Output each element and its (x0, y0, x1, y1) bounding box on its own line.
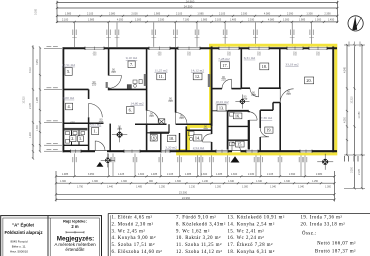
svg-text:2.390: 2.390 (287, 11, 294, 15)
svg-text:3.950: 3.950 (37, 58, 39, 64)
room box 17. (221, 62, 230, 69)
svg-text:1.210: 1.210 (189, 185, 196, 188)
fixtures (66, 74, 235, 146)
svg-text:2.030: 2.030 (158, 17, 165, 21)
room box 1. (92, 128, 99, 135)
svg-text:4.080: 4.080 (264, 11, 271, 15)
svg-text:2.105: 2.105 (167, 172, 174, 176)
svg-text:"A" Épület: "A" Épület (12, 222, 35, 227)
svg-text:1.450: 1.450 (328, 17, 335, 21)
svg-text:24.960: 24.960 (182, 196, 191, 200)
star symbol room 6 (112, 127, 127, 142)
svg-text:18. Konyha 6,31 m²: 18. Konyha 6,31 m² (228, 249, 275, 255)
svg-text:16. Wc 2,24 m²: 16. Wc 2,24 m² (228, 235, 265, 241)
svg-text:10.210: 10.210 (352, 96, 354, 104)
svg-text:20.: 20. (306, 78, 311, 83)
svg-text:210: 210 (99, 120, 104, 124)
svg-text:24.960: 24.960 (186, 0, 195, 3)
svg-text:1.485: 1.485 (151, 172, 158, 176)
svg-text:17.: 17. (222, 63, 227, 68)
svg-text:2 m: 2 m (71, 224, 78, 229)
list area left border (107, 214, 109, 256)
svg-text:1.340: 1.340 (256, 180, 263, 183)
svg-text:210: 210 (203, 127, 208, 131)
svg-text:1.300: 1.300 (92, 180, 99, 183)
windows (bottom wall) (71, 150, 313, 153)
svg-text:1.300: 1.300 (138, 172, 145, 176)
room box 18. (260, 63, 269, 70)
svg-text:4.080: 4.080 (268, 17, 275, 21)
svg-text:1.790: 1.790 (77, 185, 84, 188)
svg-text:4.350: 4.350 (117, 17, 124, 21)
room list (112, 215, 357, 255)
svg-text:2.105: 2.105 (215, 17, 222, 21)
svg-text:900: 900 (149, 180, 154, 183)
svg-text:2.030: 2.030 (241, 11, 248, 15)
svg-text:6.: 6. (129, 108, 132, 113)
svg-text:210: 210 (92, 83, 97, 87)
svg-text:7. Fürdő 9,10 m²: 7. Fürdő 9,10 m² (176, 215, 216, 221)
entrance triangle 1 (96, 162, 103, 167)
room box 5. (65, 68, 72, 76)
svg-text:11. Szoba 11,25 m²: 11. Szoba 11,25 m² (176, 242, 222, 248)
svg-text:1.300: 1.300 (242, 185, 249, 188)
north arrow (348, 16, 363, 31)
room box 16. (233, 113, 242, 119)
svg-text:2.030: 2.030 (248, 17, 255, 21)
svg-text:1.250: 1.250 (159, 185, 166, 188)
svg-text:19.: 19. (266, 128, 271, 133)
svg-text:12.: 12. (195, 74, 200, 79)
svg-text:1.300: 1.300 (306, 11, 313, 15)
svg-text:1.300: 1.300 (231, 172, 238, 176)
svg-text:15. Wc 2,41 m²: 15. Wc 2,41 m² (228, 228, 265, 234)
svg-text:8. Közlekedő 3,43m²: 8. Közlekedő 3,43m² (176, 221, 226, 227)
svg-text:2. Mosdó 2,30 m²: 2. Mosdó 2,30 m² (112, 221, 154, 227)
svg-text:10.210: 10.210 (24, 96, 26, 104)
svg-text:3.300: 3.300 (352, 166, 354, 172)
title block cell 1 text (4, 222, 43, 253)
svg-text:1.900: 1.900 (30, 131, 32, 137)
star symbol room 13 (235, 94, 249, 108)
svg-text:értendők!: értendők! (65, 247, 84, 252)
shaft box in hall (158, 119, 165, 125)
svg-text:23.300: 23.300 (179, 190, 188, 194)
svg-text:1.985: 1.985 (88, 17, 95, 21)
svg-text:Össz.:: Össz.: (302, 231, 317, 237)
svg-text:1.985: 1.985 (62, 172, 69, 176)
svg-text:210: 210 (221, 78, 226, 82)
svg-text:14. Konyha 2,54 m²: 14. Konyha 2,54 m² (228, 221, 275, 227)
svg-text:1. Előtér 4,65 m²: 1. Előtér 4,65 m² (112, 215, 153, 221)
svg-text:0.300: 0.300 (35, 8, 38, 15)
svg-text:210: 210 (286, 92, 291, 96)
svg-text:2.030: 2.030 (248, 172, 255, 176)
svg-text:1.300: 1.300 (325, 185, 332, 188)
svg-text:1.985: 1.985 (65, 11, 72, 15)
svg-text:1.300: 1.300 (121, 180, 128, 183)
room number boxes (65, 61, 314, 147)
svg-text:17. Étkező 7,28 m²: 17. Étkező 7,28 m² (228, 242, 274, 248)
svg-text:9. Wc 1,62 m²: 9. Wc 1,62 m² (176, 228, 210, 234)
room box 15. (236, 141, 245, 147)
svg-text:2.105: 2.105 (267, 172, 274, 176)
svg-text:1.440: 1.440 (107, 185, 114, 188)
svg-text:2.: 2. (71, 136, 74, 141)
svg-text:2.105: 2.105 (359, 168, 361, 174)
svg-text:1.425: 1.425 (118, 172, 125, 176)
svg-text:1.300: 1.300 (60, 180, 67, 183)
svg-text:2.980: 2.980 (316, 172, 323, 176)
svg-text:19. Iroda 7,36 m²: 19. Iroda 7,36 m² (301, 215, 343, 221)
yellow highlight outline of section B (178, 45, 336, 154)
room box 6. (127, 107, 135, 114)
entrance triangle 2 (231, 156, 240, 162)
left dimension lines (24, 45, 63, 159)
svg-text:210: 210 (111, 70, 116, 74)
title block table (1, 216, 102, 256)
small marks right of bottom-right star (344, 156, 359, 162)
svg-text:11.050: 11.050 (359, 111, 361, 119)
svg-text:10. Raktár 3,20 m²: 10. Raktár 3,20 m² (176, 235, 221, 241)
svg-text:1.340: 1.340 (228, 180, 235, 183)
svg-text:24.300: 24.300 (184, 5, 193, 9)
room box 11. (157, 73, 166, 80)
svg-text:4.245: 4.245 (344, 66, 346, 72)
star symbol at entrance (101, 153, 115, 167)
svg-text:1.985: 1.985 (185, 172, 192, 176)
svg-text:2.105: 2.105 (30, 102, 32, 108)
svg-text:2.105: 2.105 (87, 11, 94, 15)
svg-text:1.250: 1.250 (312, 180, 319, 183)
svg-text:8045 Fonyód: 8045 Fonyód (11, 240, 28, 244)
svg-text:1.660: 1.660 (175, 180, 182, 183)
doors (arcs) (89, 76, 294, 152)
svg-text:2.030: 2.030 (131, 11, 138, 15)
room area labels (62, 56, 299, 151)
svg-text:1.300: 1.300 (37, 124, 39, 130)
svg-text:4.350: 4.350 (344, 116, 346, 122)
svg-text:11.: 11. (159, 74, 164, 79)
svg-text:14.: 14. (195, 135, 200, 140)
interior walls right section (212, 49, 281, 151)
svg-text:5.: 5. (67, 69, 70, 74)
svg-text:Rajz léptéke:: Rajz léptéke: (63, 218, 87, 223)
windows (top wall) (85, 47, 327, 57)
room box 20. (305, 77, 314, 84)
wall axis extension lines (top) (72, 23, 314, 48)
svg-text:12. Szoba 14,12 m²: 12. Szoba 14,12 m² (176, 249, 222, 255)
svg-text:1.300: 1.300 (201, 172, 208, 176)
svg-text:2.390: 2.390 (324, 11, 331, 15)
svg-text:210: 210 (168, 99, 173, 103)
right dimension lines (344, 42, 365, 190)
svg-text:15.: 15. (237, 142, 242, 147)
svg-text:1.240: 1.240 (202, 180, 209, 183)
svg-text:2.105: 2.105 (176, 11, 183, 15)
svg-text:1.340: 1.340 (284, 180, 291, 183)
top dimension lines (56, 0, 339, 23)
svg-text:16.: 16. (235, 113, 240, 118)
svg-text:Béke u. 11.: Béke u. 11. (12, 244, 27, 248)
room box 8 (circled) (150, 134, 157, 141)
svg-text:7.: 7. (130, 62, 133, 67)
svg-text:210: 210 (179, 116, 184, 120)
svg-text:10.: 10. (169, 136, 174, 141)
svg-text:Nettó 166,07 m²: Nettó 166,07 m² (317, 240, 356, 246)
room box 14. (193, 135, 202, 141)
svg-text:1.985: 1.985 (154, 11, 161, 15)
svg-text:1.985: 1.985 (37, 96, 39, 102)
svg-text:Földszinti alaprajz: Földszinti alaprajz (4, 230, 43, 235)
svg-text:1.985: 1.985 (299, 17, 306, 21)
interior walls left section (63, 47, 212, 152)
svg-text:2.080: 2.080 (109, 11, 116, 15)
svg-text:3.: 3. (79, 137, 82, 141)
svg-text:1.300: 1.300 (135, 17, 142, 21)
svg-text:1.985: 1.985 (201, 17, 208, 21)
svg-text:5. Szoba 17,51 m²: 5. Szoba 17,51 m² (112, 242, 155, 248)
title block cell 2 text (54, 218, 96, 252)
door size labels (92, 68, 291, 132)
svg-text:2.100: 2.100 (62, 17, 69, 21)
svg-text:13.: 13. (219, 105, 224, 110)
room box 10. (167, 135, 176, 141)
svg-text:13. Közlekedő 10,91 m²: 13. Közlekedő 10,91 m² (228, 215, 285, 221)
bottom dimension lines (55, 154, 336, 202)
svg-text:4.: 4. (67, 104, 70, 109)
star symbol bottom right (317, 154, 333, 170)
room box 12. (193, 73, 202, 80)
svg-text:1.485: 1.485 (230, 17, 237, 21)
svg-text:20. Iroda 33,18 m²: 20. Iroda 33,18 m² (301, 221, 346, 227)
room box 13. (217, 105, 226, 111)
room box 19. (265, 127, 273, 133)
svg-text:4. Konyha 9,00 m²: 4. Konyha 9,00 m² (112, 235, 157, 241)
svg-text:1.340: 1.340 (270, 185, 277, 188)
svg-text:1.300: 1.300 (283, 17, 290, 21)
svg-text:210: 210 (251, 93, 256, 97)
svg-text:1.485: 1.485 (136, 185, 143, 188)
svg-text:1.485: 1.485 (216, 172, 223, 176)
svg-text:2.390: 2.390 (289, 172, 296, 176)
svg-text:1.985: 1.985 (197, 11, 204, 15)
room box 7. (128, 61, 135, 68)
svg-text:6.110: 6.110 (30, 66, 32, 72)
svg-text:Bruttó 187,37 m²: Bruttó 187,37 m² (315, 248, 356, 254)
svg-text:7.180: 7.180 (183, 17, 190, 21)
svg-text:1.300: 1.300 (315, 17, 322, 21)
svg-text:Hrsz. 5000/10: Hrsz. 5000/10 (10, 250, 28, 254)
room box 2. (70, 136, 76, 142)
svg-text:18.: 18. (262, 64, 267, 69)
svg-text:210: 210 (149, 114, 154, 118)
svg-text:2.105: 2.105 (219, 11, 226, 15)
room box 4. (66, 103, 73, 110)
svg-text:3. Wc 2,45 m²: 3. Wc 2,45 m² (112, 228, 146, 234)
room box 3 (78, 136, 84, 142)
svg-text:6. Előszoba 14,60 m²: 6. Előszoba 14,60 m² (112, 249, 163, 255)
separator line above list (108, 213, 370, 215)
svg-text:1.200: 1.200 (215, 185, 222, 188)
svg-text:3.950: 3.950 (88, 172, 95, 176)
svg-text:8: 8 (153, 136, 155, 140)
svg-text:1.: 1. (93, 129, 96, 134)
exterior walls (63, 47, 338, 153)
svg-text:1.340: 1.340 (298, 185, 305, 188)
